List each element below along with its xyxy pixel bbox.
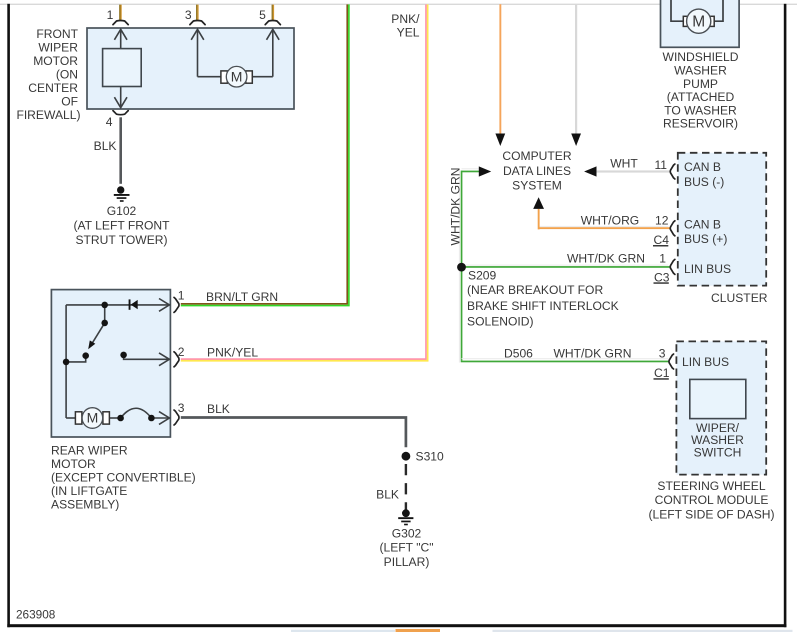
svg-text:WHT: WHT: [610, 157, 638, 171]
svg-text:TO WASHER: TO WASHER: [664, 103, 737, 117]
svg-text:BRN/LT GRN: BRN/LT GRN: [206, 290, 278, 304]
svg-text:CLUSTER: CLUSTER: [711, 291, 768, 305]
svg-text:2: 2: [178, 345, 185, 359]
svg-text:1: 1: [107, 8, 114, 22]
svg-text:(LEFT "C": (LEFT "C": [379, 541, 433, 555]
svg-text:STRUT TOWER): STRUT TOWER): [75, 233, 167, 247]
svg-text:COMPUTER: COMPUTER: [502, 149, 571, 163]
svg-text:CAN B: CAN B: [684, 160, 721, 174]
svg-text:CAN B: CAN B: [684, 218, 721, 232]
svg-text:REAR WIPER: REAR WIPER: [51, 444, 128, 458]
svg-text:(AT LEFT FRONT: (AT LEFT FRONT: [73, 219, 170, 233]
svg-text:WIPER: WIPER: [38, 41, 78, 55]
svg-text:(NEAR BREAKOUT FOR: (NEAR BREAKOUT FOR: [467, 283, 603, 297]
svg-text:CENTER: CENTER: [28, 81, 78, 95]
svg-text:WHT/DK GRN: WHT/DK GRN: [554, 346, 632, 360]
svg-text:PUMP: PUMP: [683, 77, 718, 91]
svg-text:WHT/DK GRN: WHT/DK GRN: [567, 251, 645, 265]
svg-text:3: 3: [659, 346, 666, 360]
svg-text:M: M: [692, 14, 705, 31]
svg-text:FIREWALL): FIREWALL): [16, 108, 80, 122]
svg-text:DATA LINES: DATA LINES: [503, 164, 571, 178]
svg-text:M: M: [231, 68, 243, 84]
svg-text:G102: G102: [107, 204, 137, 218]
svg-text:PILLAR): PILLAR): [384, 555, 430, 569]
svg-text:LIN BUS: LIN BUS: [684, 262, 731, 276]
svg-text:11: 11: [654, 158, 667, 172]
svg-text:12: 12: [655, 214, 669, 228]
svg-text:PNK/YEL: PNK/YEL: [207, 345, 258, 359]
svg-text:WHT/ORG: WHT/ORG: [581, 213, 639, 227]
svg-text:BRAKE SHIFT INTERLOCK: BRAKE SHIFT INTERLOCK: [467, 299, 619, 313]
svg-text:SWITCH: SWITCH: [694, 446, 742, 460]
svg-text:BUS (+): BUS (+): [684, 232, 727, 246]
svg-text:(IN LIFTGATE: (IN LIFTGATE: [51, 484, 127, 498]
svg-text:LIN BUS: LIN BUS: [682, 355, 729, 369]
svg-text:BLK: BLK: [94, 139, 117, 153]
svg-text:M: M: [87, 410, 99, 426]
svg-text:WHT/DK GRN: WHT/DK GRN: [449, 168, 463, 246]
svg-text:WASHER: WASHER: [674, 64, 727, 78]
svg-text:CONTROL MODULE: CONTROL MODULE: [655, 493, 769, 507]
svg-text:G302: G302: [392, 527, 422, 541]
svg-text:FRONT: FRONT: [36, 27, 78, 41]
svg-text:3: 3: [178, 401, 185, 415]
svg-text:BLK: BLK: [207, 402, 230, 416]
svg-text:OF: OF: [61, 95, 78, 109]
svg-text:ASSEMBLY): ASSEMBLY): [51, 498, 119, 512]
svg-text:PNK/: PNK/: [391, 12, 420, 26]
svg-text:BUS (-): BUS (-): [684, 175, 724, 189]
svg-text:1: 1: [178, 289, 185, 303]
svg-text:RESERVOIR): RESERVOIR): [663, 117, 738, 131]
svg-text:S310: S310: [416, 449, 445, 463]
svg-text:SYSTEM: SYSTEM: [512, 179, 562, 193]
svg-text:S209: S209: [468, 269, 497, 283]
svg-text:3: 3: [185, 8, 192, 22]
svg-text:(EXCEPT CONVERTIBLE): (EXCEPT CONVERTIBLE): [51, 471, 196, 485]
svg-text:C1: C1: [654, 366, 670, 380]
svg-text:4: 4: [106, 115, 113, 129]
svg-text:5: 5: [259, 8, 266, 22]
svg-text:MOTOR: MOTOR: [51, 457, 96, 471]
svg-text:WINDSHIELD: WINDSHIELD: [663, 50, 739, 64]
svg-text:D506: D506: [504, 346, 533, 360]
svg-text:YEL: YEL: [397, 26, 420, 40]
svg-text:263908: 263908: [16, 608, 56, 622]
svg-text:MOTOR: MOTOR: [33, 54, 78, 68]
svg-text:(LEFT SIDE OF DASH): (LEFT SIDE OF DASH): [648, 508, 774, 522]
svg-text:STEERING WHEEL: STEERING WHEEL: [657, 479, 765, 493]
svg-text:1: 1: [659, 252, 666, 266]
svg-text:(ATTACHED: (ATTACHED: [667, 90, 735, 104]
svg-text:(ON: (ON: [56, 68, 78, 82]
svg-text:SOLENOID): SOLENOID): [467, 315, 534, 329]
svg-text:BLK: BLK: [376, 487, 399, 501]
